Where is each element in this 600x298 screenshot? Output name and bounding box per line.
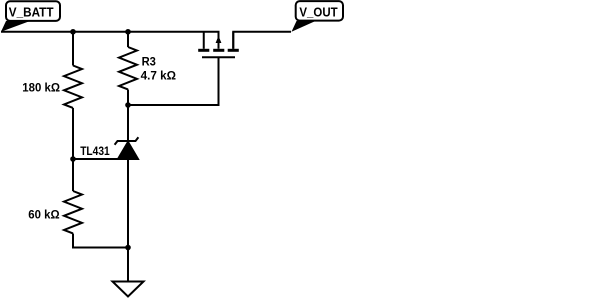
- node V_OUT flag: [292, 1, 344, 32]
- wire top rail V_BATT: [1, 32, 219, 49]
- svg-text:180 kΩ: 180 kΩ: [22, 82, 60, 94]
- wire left branch upper: [72, 32, 74, 66]
- resistor R3 4.7 kOhm: [119, 47, 176, 89]
- wire TL431 ref: [73, 158, 123, 160]
- shunt reference TL431: [80, 137, 138, 159]
- junction dot top rail R3: [125, 29, 131, 35]
- body arrow: [216, 36, 222, 43]
- svg-text:60 kΩ: 60 kΩ: [28, 209, 59, 221]
- resistor 180 kOhm: [22, 66, 82, 108]
- cathode bar: [115, 137, 139, 144]
- wire gate node to mosfet gate: [128, 57, 219, 105]
- wire left branch middle: [72, 108, 74, 159]
- svg-text:V_BATT: V_BATT: [9, 4, 54, 19]
- junction dot gate node: [125, 102, 131, 108]
- node V_BATT flag: [1, 1, 60, 31]
- wire left branch to bottom rail: [73, 234, 128, 248]
- channel bars: [198, 49, 209, 52]
- source stub: [203, 32, 205, 49]
- wire R3 bottom to TL431 cathode: [127, 90, 129, 141]
- drain stub: [232, 32, 234, 49]
- gate bar: [202, 56, 235, 58]
- wire R3 top: [127, 32, 129, 47]
- resistor 60 kOhm: [28, 191, 82, 233]
- svg-text:R3: R3: [142, 57, 156, 69]
- transistor PMOS M1: [198, 32, 239, 57]
- wire anode down: [127, 159, 129, 282]
- svg-text:4.7 kΩ: 4.7 kΩ: [141, 70, 176, 82]
- svg-text:V_OUT: V_OUT: [299, 5, 337, 20]
- junction dot top rail left: [70, 29, 76, 35]
- triangle: [118, 142, 138, 159]
- wire left branch lower: [72, 159, 74, 191]
- junction dot bottom rail: [125, 245, 131, 251]
- svg-text:TL431: TL431: [80, 146, 110, 158]
- junction dot ref node: [70, 156, 76, 162]
- wire drain to V_OUT: [233, 32, 291, 49]
- ground: [113, 282, 144, 297]
